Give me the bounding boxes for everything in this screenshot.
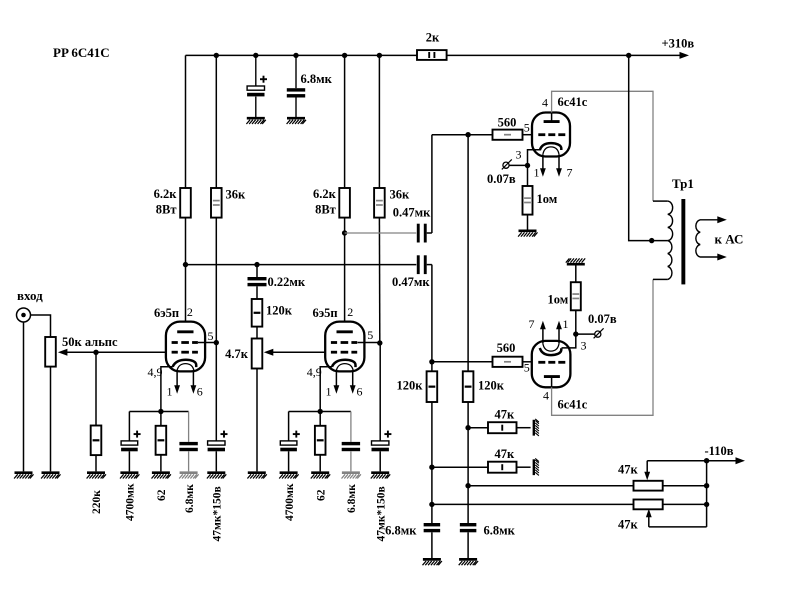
node center tap Tr1 (649, 238, 654, 243)
tube V1 6e5p driver (166, 322, 205, 372)
wire grid bias line V3 (432, 134, 493, 136)
ground 4700mk stage1 (120, 473, 139, 479)
resistor 560 grid stopper V3 (493, 130, 523, 140)
transformer Tr1 primary lower (668, 241, 672, 280)
resistor 1ohm cathode V4 (575, 310, 577, 334)
ground 62 stage1 (152, 473, 171, 479)
wire anode V1 down to tube (185, 265, 187, 332)
node junction 36k-2 on rail (377, 53, 382, 58)
svg-text:6.8мк: 6.8мк (184, 484, 196, 513)
node junction 6.2k-2 on rail (342, 53, 347, 58)
wire 220k from wiper node (95, 352, 97, 425)
svg-text:8Вт: 8Вт (156, 203, 177, 217)
wire cathode lead V3 pin3 (528, 150, 541, 166)
node junction 36k-1 on rail (214, 53, 219, 58)
wire wiper to grid V1 (64, 351, 167, 353)
wire screen lead V2 pin5 (358, 342, 380, 344)
wire 36k-1 to screen node (215, 218, 217, 343)
resistor 120k grid leak V3 (463, 371, 474, 402)
wire anode lead V3 (551, 113, 553, 122)
capacitor 6.8mk bias V4 (424, 523, 441, 526)
wire bias line to pot2 (432, 503, 634, 505)
svg-text:2: 2 (187, 305, 193, 319)
resistor 220k grid leak (91, 426, 102, 456)
wire -110v vertical (706, 461, 708, 527)
svg-text:47к: 47к (495, 447, 516, 461)
svg-text:5: 5 (367, 328, 373, 342)
capacitor filter 6.8mk C2 (295, 55, 297, 88)
svg-text:47к: 47к (495, 408, 516, 422)
ground inverted 1ohm V4 (566, 258, 585, 264)
tube V2 6e5p driver (325, 322, 364, 372)
wire -110v rail (647, 460, 736, 462)
node cathode V4 (573, 331, 578, 336)
wire cathode lead V2 pins 4 9 (320, 367, 332, 412)
node junction bias line V4 (429, 359, 434, 364)
wire B+ feed to center tap (629, 55, 668, 240)
node screen grid V2 (377, 340, 382, 345)
svg-text:1ом: 1ом (548, 293, 569, 307)
arrow secondary top (717, 216, 727, 223)
svg-text:к АС: к АС (715, 232, 744, 247)
capacitor 6.8mk bias V3 (460, 523, 477, 526)
arrow +310v supply (680, 52, 690, 59)
transformer Tr1 secondary (696, 220, 723, 257)
wire 220k to ground (95, 455, 97, 471)
svg-text:6с41с: 6с41с (558, 95, 588, 109)
node anode V2 junction (342, 230, 347, 235)
wire 6.2k-1 to anode node (185, 218, 187, 265)
arrow secondary bottom (717, 254, 727, 261)
wire 120k to 4.7k (256, 327, 258, 339)
tube V4 6c41c output (532, 341, 571, 387)
svg-text:6э5п: 6э5п (313, 306, 338, 320)
potentiometer 4.7k (252, 339, 263, 369)
ground volume pot (41, 473, 60, 479)
capacitor 4700mk stage2 (288, 412, 290, 441)
capacitor 0.47mk upper coupling (345, 232, 417, 234)
ground 4.7k (247, 473, 266, 479)
svg-text:560: 560 (498, 116, 517, 130)
svg-text:6.8мк: 6.8мк (484, 524, 516, 538)
svg-text:120к: 120к (397, 379, 424, 393)
wire pot bottom to ground (50, 367, 52, 472)
svg-text:47мк*150в: 47мк*150в (212, 486, 224, 541)
svg-text:62: 62 (315, 489, 327, 501)
svg-text:8Вт: 8Вт (315, 203, 336, 217)
svg-text:7: 7 (567, 166, 573, 180)
potentiometer 47k bias V3 (634, 481, 663, 491)
node screen grid V1 (214, 340, 219, 345)
wire 6.2k-2 from rail (344, 55, 346, 188)
wire 560 to grid V3 (523, 134, 533, 136)
wire anode lead V4 (551, 377, 553, 388)
wire cathode bus stage2 (289, 411, 351, 413)
capacitor 47mk 150v screen bypass stage1 (208, 441, 225, 445)
svg-text:3: 3 (581, 339, 587, 353)
resistor 2k in supply rail (417, 50, 447, 60)
testpoint 0.07v V4 (595, 331, 601, 337)
node bias line V3 junction (465, 483, 470, 488)
wire 36k-2 from rail (378, 55, 380, 188)
resistor 62 cathode stage1 (160, 412, 162, 426)
svg-text:6: 6 (197, 385, 203, 399)
wire cathode bus stage1 (129, 411, 188, 413)
svg-text:47к: 47к (618, 463, 639, 477)
ground filter cap C1 (246, 118, 265, 124)
svg-text:6.8мк: 6.8мк (301, 72, 333, 86)
node grid node V3 (465, 132, 470, 137)
wire 4.7k to ground (256, 369, 258, 472)
wire anode V3 to transformer gray (552, 91, 653, 201)
node anode V1 junction (183, 262, 188, 267)
node junction B+ feed on rail (626, 53, 631, 58)
resistor 47k to ground upper (468, 427, 488, 429)
ground 6.8mk stage2 (342, 473, 361, 479)
capacitor 6.8mk cathode stage1 (188, 412, 190, 442)
capacitor 6.8mk cathode stage2 (350, 412, 352, 442)
resistor 47k to ground lower (432, 466, 488, 468)
svg-text:6: 6 (357, 385, 363, 399)
wire 120k-V3 down (467, 402, 469, 523)
svg-text:5: 5 (524, 121, 530, 135)
testpoint 0.07v V3 (503, 162, 509, 168)
svg-text:62: 62 (156, 489, 168, 501)
resistor 36k stage1 (211, 188, 222, 218)
capacitor 0.22mk NFB (256, 265, 258, 277)
svg-text:2к: 2к (426, 31, 440, 45)
ground 220k (87, 473, 106, 479)
ground 1ohm V3 (518, 231, 537, 237)
ground input jack (14, 473, 33, 479)
resistor 36k stage2 (374, 188, 385, 218)
svg-text:1ом: 1ом (537, 192, 558, 206)
wire pot1 wiper to -110v (646, 461, 648, 473)
wire anode line V1 to coupling caps (186, 264, 417, 266)
capacitor 0.47mk lower coupling (417, 255, 420, 274)
wire anode V4 to transformer gray (552, 279, 653, 415)
capacitor 47mk 150v screen bypass stage2 (372, 441, 389, 445)
svg-text:120к: 120к (478, 379, 505, 393)
wire input shell to ground (23, 322, 25, 471)
wire screen node to bypass cap (215, 343, 217, 441)
resistor 6.2k 8W stage1 (180, 188, 191, 218)
capacitor 4700mk stage1 (128, 412, 130, 441)
wire 36k-2 to screen node V2 (378, 218, 380, 343)
ground 47mk stage1 (207, 473, 226, 479)
svg-text:4: 4 (543, 389, 549, 403)
svg-text:6.8мк: 6.8мк (385, 524, 417, 538)
node coupling to NFB chain (254, 262, 259, 267)
wire pot1 right to rail (663, 485, 707, 487)
svg-text:47к: 47к (618, 518, 639, 532)
svg-text:6э5п: 6э5п (154, 306, 179, 320)
svg-text:6.2к: 6.2к (154, 187, 178, 201)
svg-text:Тр1: Тр1 (672, 176, 694, 191)
node bias line V4 junction (429, 502, 434, 507)
node 47k-2 junction (429, 465, 434, 470)
ground 47mk stage2 (371, 473, 390, 479)
svg-text:6с41с: 6с41с (558, 398, 588, 412)
wire 36k-1 from rail (215, 55, 217, 188)
resistor 120k NFB (252, 299, 263, 327)
svg-text:3: 3 (516, 148, 522, 162)
resistor 62 cathode stage2 (319, 412, 321, 426)
svg-text:36к: 36к (390, 188, 411, 202)
svg-text:0.47мк: 0.47мк (393, 206, 431, 220)
wire screen node V2 to bypass cap (379, 343, 381, 441)
node -110v junction top (704, 458, 709, 463)
wire pot2 right to rail (663, 503, 707, 505)
svg-text:6.8мк: 6.8мк (346, 484, 358, 513)
wire screen lead V1 pin5 (198, 342, 216, 344)
svg-text:50к альпс: 50к альпс (62, 335, 118, 349)
node cathode V3 (525, 163, 530, 168)
potentiometer 47k bias V4 (634, 500, 663, 510)
svg-text:0.07в: 0.07в (588, 312, 617, 326)
svg-text:4.7к: 4.7к (225, 347, 249, 361)
node cathode junction V2 (318, 409, 323, 414)
svg-text:PP 6C41C: PP 6C41C (53, 45, 110, 60)
wire input to pot (31, 315, 51, 337)
svg-text:4700мк: 4700мк (125, 483, 137, 521)
wire bias line to pot1 (468, 485, 633, 487)
transformer Tr1 primary upper (653, 200, 668, 202)
svg-text:вход: вход (17, 288, 43, 303)
ground 62 stage2 (311, 473, 330, 479)
svg-text:2: 2 (347, 305, 353, 319)
ground filter cap C2 (287, 118, 306, 124)
svg-text:220к: 220к (91, 490, 103, 514)
svg-text:560: 560 (497, 341, 516, 355)
wire 560 to grid V4 (523, 361, 532, 363)
svg-text:5: 5 (524, 361, 530, 375)
wire grid bias line V4 (432, 361, 493, 363)
wire coupling cap1 up to grid node (431, 135, 433, 233)
wire grid lead V2 from 4.7k wiper (269, 351, 326, 353)
svg-text:1: 1 (563, 317, 569, 331)
ground rotated 47k upper (534, 419, 539, 436)
svg-text:1: 1 (326, 385, 332, 399)
wire 120k-V4 down (431, 402, 433, 523)
svg-text:36к: 36к (226, 188, 247, 202)
svg-text:0.07в: 0.07в (487, 172, 516, 186)
ground 4700mk stage2 (279, 473, 298, 479)
svg-text:6.2к: 6.2к (313, 187, 337, 201)
node pot1 right junction (704, 483, 709, 488)
node pot2 right junction (704, 502, 709, 507)
wire cathode lead V4 pin3 (562, 334, 576, 348)
svg-text:4: 4 (542, 96, 548, 110)
wire 6.2k-2 to anode node V2 (344, 218, 346, 332)
wire 6.2k-1 from rail (185, 55, 187, 188)
node 47k-1 junction (465, 425, 470, 430)
connector input jack (17, 308, 31, 322)
wire cathode lead V1 pins 4 9 (161, 367, 173, 412)
svg-text:5: 5 (208, 329, 214, 343)
wire top supply rail right section (447, 54, 680, 56)
node wiper junction 220k (93, 350, 98, 355)
capacitor filter electrolytic C1 (255, 55, 257, 86)
potentiometer 50k volume (45, 337, 56, 367)
node cathode junction V1 (158, 409, 163, 414)
ground bias cap V4 (423, 559, 442, 565)
resistor 1ohm cathode V3 (527, 166, 529, 187)
svg-text:7: 7 (529, 317, 535, 331)
wire coupling cap2 down bias line (431, 265, 433, 372)
node junction filter cap 1 on rail (253, 53, 258, 58)
svg-text:120к: 120к (266, 304, 293, 318)
resistor 560 grid stopper V4 (493, 357, 523, 367)
svg-text:1: 1 (534, 166, 540, 180)
wire grid leak drop V3 (467, 135, 469, 372)
svg-text:4700мк: 4700мк (284, 483, 296, 521)
transformer Tr1 core (681, 199, 685, 284)
ground bias cap V3 (459, 559, 478, 565)
node junction filter cap 2 on rail (293, 53, 298, 58)
svg-text:-110в: -110в (705, 444, 734, 458)
wire top supply rail left section (186, 54, 418, 56)
resistor 6.2k 8W stage2 (339, 188, 350, 218)
ground rotated 47k lower (534, 458, 539, 475)
svg-text:0.22мк: 0.22мк (268, 275, 306, 289)
svg-text:+310в: +310в (662, 37, 695, 51)
svg-text:0.47мк: 0.47мк (392, 275, 430, 289)
svg-text:1: 1 (167, 385, 173, 399)
ground 6.8mk stage1 (179, 473, 198, 479)
tube V3 6c41c output (532, 113, 570, 157)
resistor 120k grid leak V4 (427, 371, 438, 402)
wire pot2 wiper bottom (649, 526, 707, 528)
